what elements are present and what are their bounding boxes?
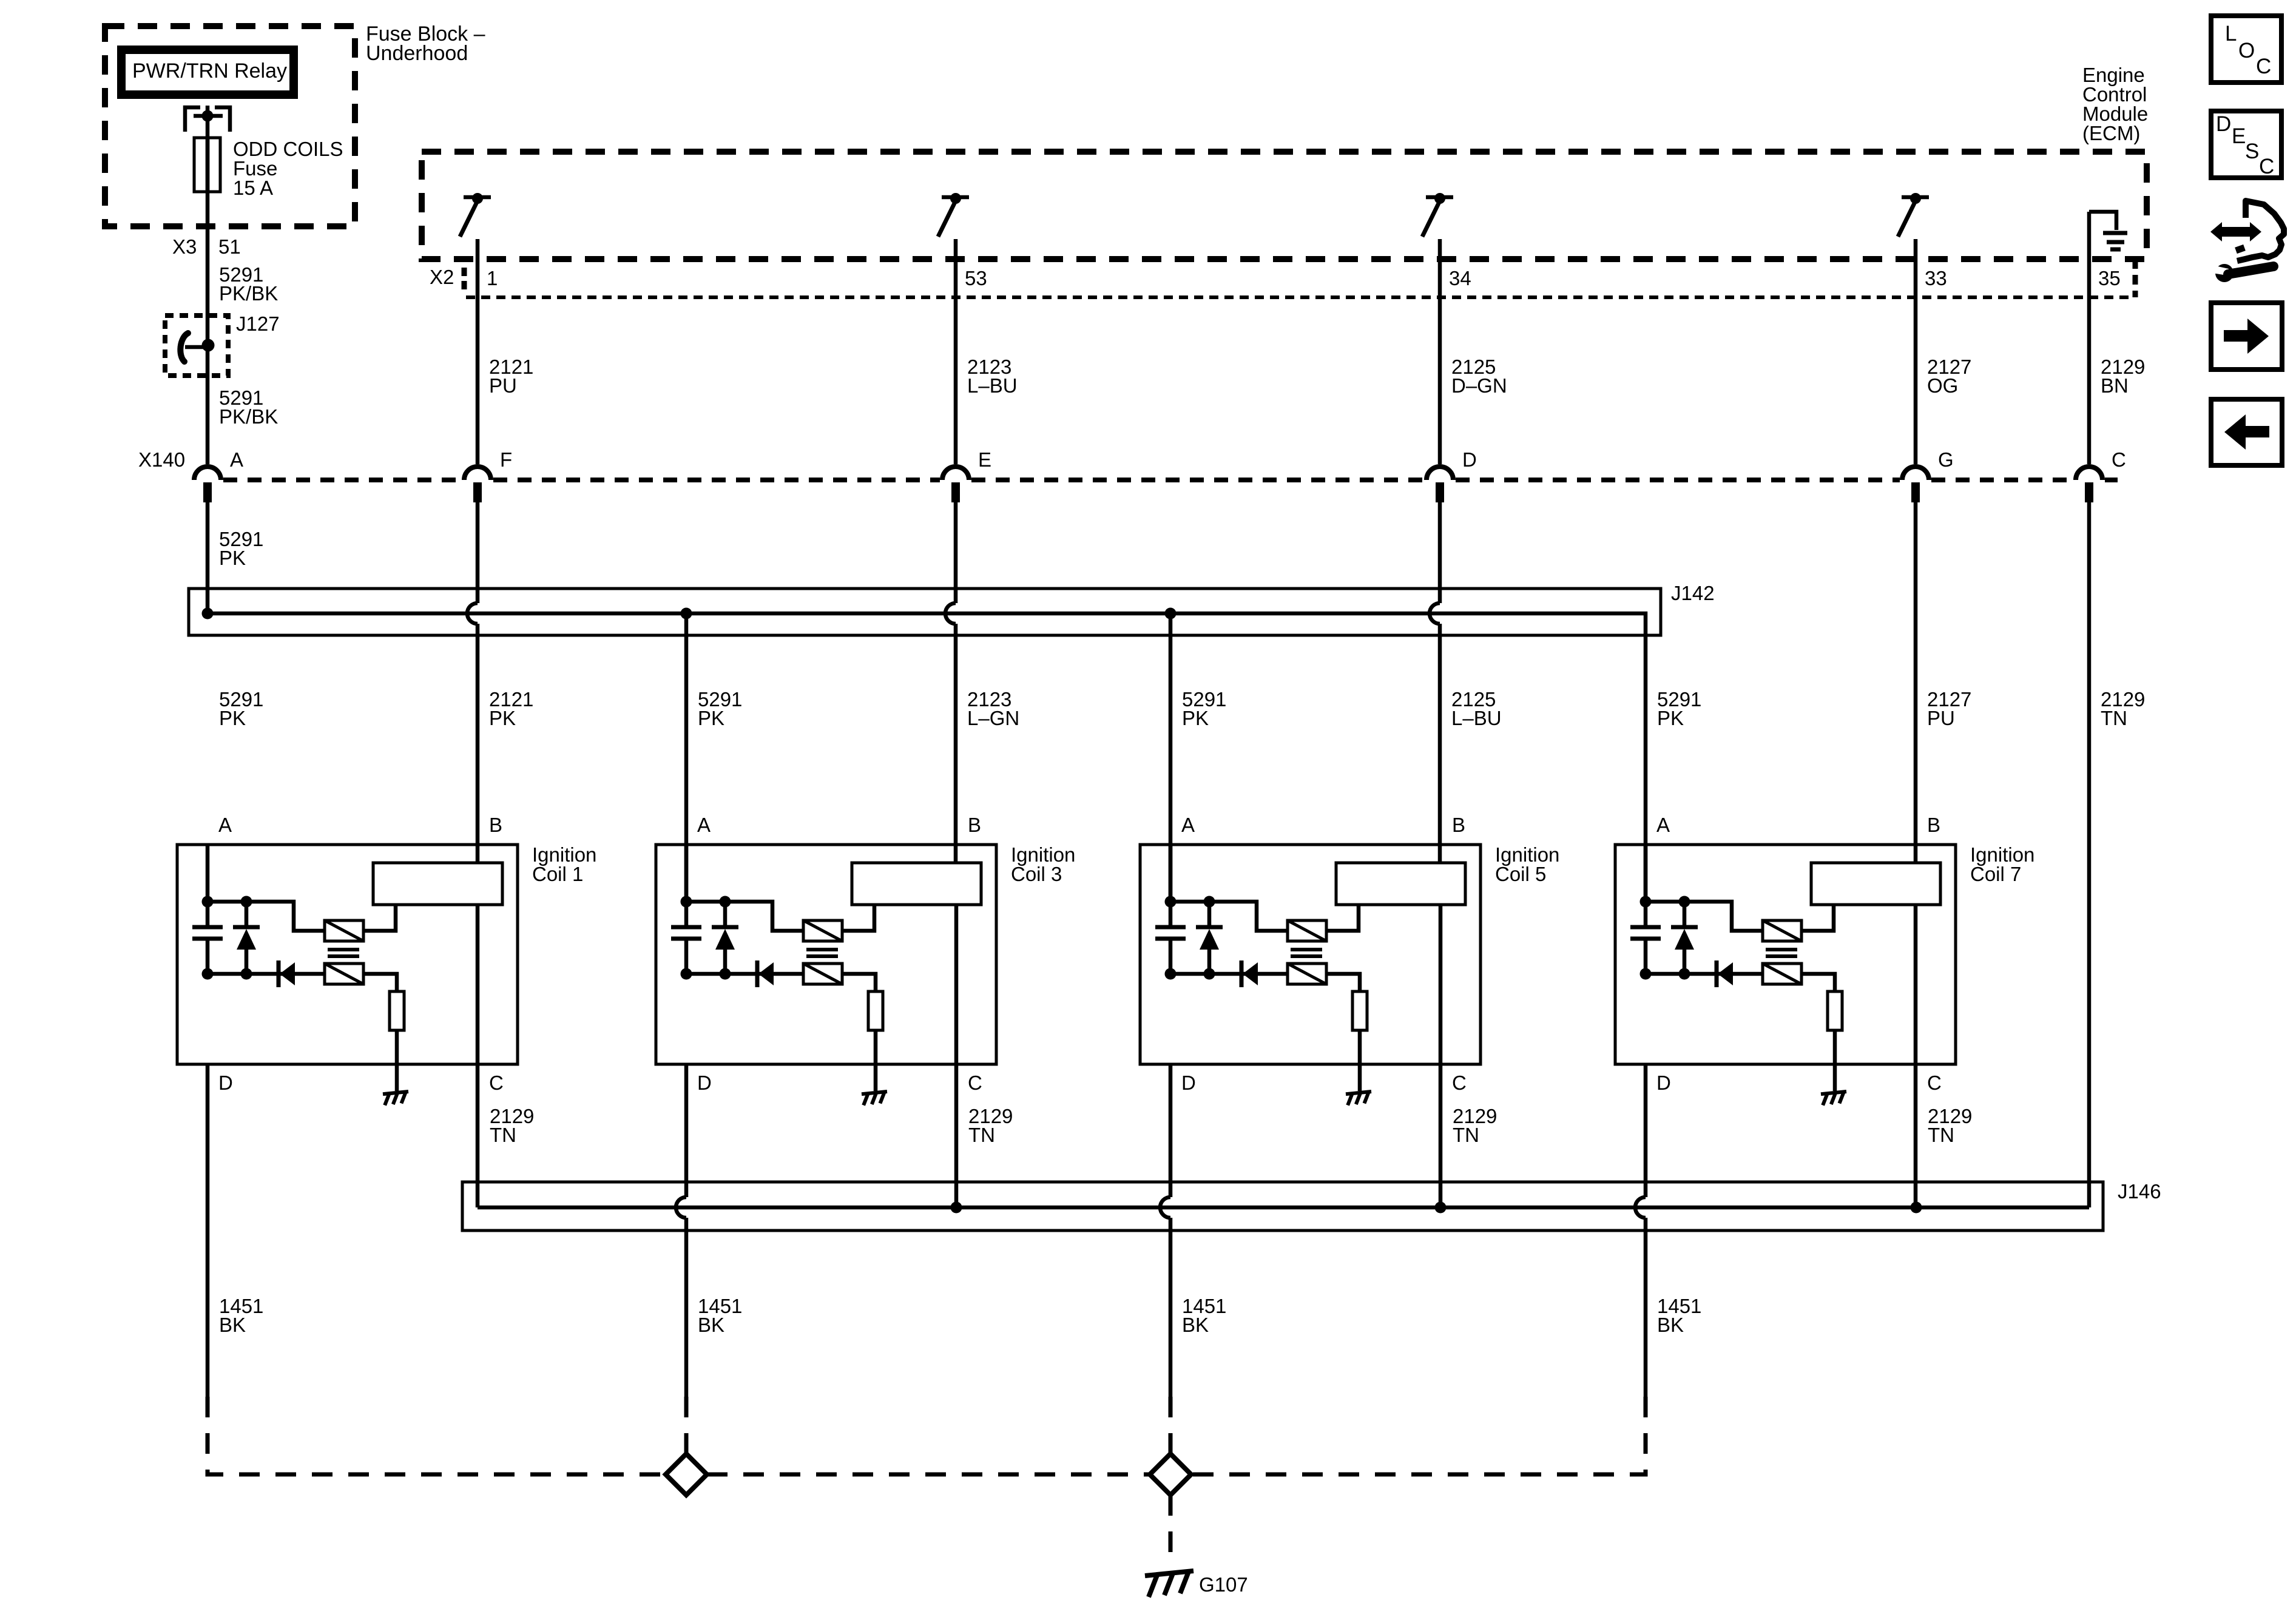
svg-text:PK/BK: PK/BK: [219, 405, 278, 428]
driver block lower coil 1: [325, 964, 363, 984]
driver block coupling bars coil 1: [328, 950, 359, 956]
icon DESC box: [2211, 111, 2281, 178]
svg-text:X140: X140: [138, 448, 185, 471]
connector X140 pin F: [464, 467, 491, 502]
ECM driver switch, output pin 53: [938, 193, 969, 237]
svg-text:D: D: [2216, 112, 2231, 136]
svg-text:PU: PU: [1927, 707, 1955, 729]
svg-text:C: C: [1452, 1072, 1467, 1094]
coil 5 internal wiring: [1170, 902, 1288, 974]
capacitor coil 5: [1155, 927, 1186, 939]
svg-text:J146: J146: [2118, 1180, 2161, 1203]
ECM dashed box: [422, 152, 2147, 259]
label wire 5291 PK/BK (lower): [219, 387, 278, 428]
label wire 5291 PK/BK (upper): [219, 263, 278, 305]
svg-text:15 A: 15 A: [233, 177, 273, 199]
label wire 2127 OG: [1927, 356, 1971, 397]
node J142 tap coil 3: [681, 608, 692, 619]
svg-text:PWR/TRN Relay: PWR/TRN Relay: [132, 59, 287, 83]
dashed wire 1451 BK coil3 to splice diamond: [684, 1397, 689, 1454]
node J146 coil7 C: [1911, 1202, 1922, 1214]
splice bus J142 outline: [189, 589, 1661, 635]
node J142 tap coil 5: [1165, 608, 1177, 619]
wire 1451 BK crossing J146 with hop at x=1929: [1160, 1064, 1170, 1397]
ignition coil 7 box: [1615, 845, 1956, 1064]
connector X3 pin 51 labels: [172, 235, 241, 258]
svg-text:L–GN: L–GN: [967, 707, 1019, 729]
svg-text:B: B: [1452, 814, 1465, 836]
svg-text:D: D: [697, 1072, 712, 1094]
svg-text:34: 34: [1449, 267, 1471, 289]
wire 2129 TN coil 7 C pin: [1914, 905, 1918, 1207]
svg-text:A: A: [1656, 814, 1670, 836]
label wire 2129 BN: [2101, 356, 2145, 397]
fuse block underhood dashed box: [105, 26, 355, 226]
svg-text:PU: PU: [489, 374, 517, 397]
label wire 1451 BK: [1182, 1295, 1226, 1336]
ground (coil 7 case): [1821, 1092, 1846, 1106]
zener diode coil 1: [233, 927, 260, 950]
node coil 1 internal dots: [202, 896, 252, 980]
diode coil 3: [757, 960, 774, 987]
wire upper driver to transformer coil 5: [1326, 905, 1359, 931]
svg-text:D–GN: D–GN: [1451, 374, 1507, 397]
ground (coil 1 case): [383, 1092, 408, 1106]
label Fuse Block - Underhood: [366, 22, 485, 65]
driver block coupling bars coil 3: [806, 950, 838, 956]
svg-text:S: S: [2245, 140, 2259, 163]
svg-text:L: L: [2225, 22, 2237, 46]
transformer (coil winding) coil 7: [1811, 863, 1940, 905]
svg-text:BK: BK: [1182, 1314, 1209, 1336]
svg-text:Coil 5: Coil 5: [1495, 863, 1546, 885]
coil 1 A-wire internal: [206, 845, 210, 902]
wire 1451 BK crossing J146 with hop at x=1131: [676, 1064, 686, 1397]
ECM connector dotted line: [466, 295, 2133, 299]
connector X140 pin E: [942, 467, 969, 502]
wire upper driver to transformer coil 1: [363, 905, 396, 931]
svg-text:51: 51: [218, 235, 241, 258]
label wire 5291 PK: [219, 528, 263, 569]
svg-text:E: E: [978, 448, 991, 471]
svg-text:Coil 1: Coil 1: [532, 863, 583, 885]
label wire 2125 D–GN: [1451, 356, 1507, 397]
capacitor coil 1: [192, 927, 223, 939]
wire lower driver to resistor coil 7: [1801, 974, 1835, 991]
label wire 5291 PK: [698, 688, 742, 729]
driver block coupling bars coil 7: [1766, 950, 1797, 956]
label wire 2129 TN coil 3: [968, 1105, 1013, 1146]
svg-text:C: C: [2112, 448, 2126, 471]
svg-text:PK: PK: [698, 707, 724, 729]
svg-text:B: B: [1927, 814, 1940, 836]
wire 2129 BN from ECM pin 35 to X140-C: [2087, 212, 2092, 464]
label wire 2129 TN coil 5: [1453, 1105, 1497, 1146]
svg-text:TN: TN: [1928, 1124, 1954, 1146]
zener diode coil 3: [712, 927, 738, 950]
wire lower driver to resistor coil 5: [1326, 974, 1360, 991]
svg-text:G: G: [1938, 448, 1954, 471]
svg-text:L–BU: L–BU: [1451, 707, 1502, 729]
coil 5 A-wire internal: [1169, 845, 1173, 902]
label wire 2129 TN: [2101, 688, 2145, 729]
coil 1 internal wiring: [208, 902, 325, 974]
label wire 5291 PK: [1657, 688, 1701, 729]
svg-text:53: 53: [965, 267, 987, 289]
svg-text:Coil 3: Coil 3: [1011, 863, 1062, 885]
wire upper driver to transformer coil 3: [842, 905, 874, 931]
svg-text:A: A: [697, 814, 711, 836]
svg-text:J142: J142: [1671, 582, 1715, 604]
svg-text:1: 1: [487, 267, 498, 289]
driver block upper coil 7: [1763, 920, 1801, 941]
driver block coupling bars coil 5: [1291, 950, 1322, 956]
label wire 5291 PK: [1182, 688, 1226, 729]
svg-text:35: 35: [2098, 267, 2121, 289]
zener diode coil 5: [1196, 927, 1223, 950]
label wire 2123 L–BU: [967, 356, 1018, 397]
label wire 1451 BK: [698, 1295, 742, 1336]
svg-text:33: 33: [1925, 267, 1947, 289]
wire 1451 BK coil 1 down: [206, 1064, 210, 1397]
connector X2 tick marks: [462, 268, 467, 291]
ignition coil 5 box: [1140, 845, 1481, 1064]
svg-text:PK: PK: [1657, 707, 1684, 729]
resistor coil 3: [868, 991, 883, 1030]
label ODD COILS Fuse 15 A: [233, 138, 343, 199]
ECM driver switch, output pin 33: [1898, 193, 1929, 237]
svg-text:PK: PK: [219, 547, 246, 569]
capacitor coil 7: [1630, 927, 1661, 939]
label Ignition Coil 7: [1970, 843, 2034, 885]
svg-text:A: A: [218, 814, 232, 836]
svg-text:BK: BK: [698, 1314, 724, 1336]
label wire 2127 PU: [1927, 688, 1971, 729]
svg-text:PK: PK: [1182, 707, 1209, 729]
wire lower driver to resistor coil 3: [842, 974, 876, 991]
resistor coil 7: [1828, 991, 1842, 1030]
node coil 7 internal dots: [1640, 896, 1690, 980]
svg-text:O: O: [2238, 39, 2255, 62]
splice J127: [165, 316, 228, 376]
node J142 at A wire: [202, 608, 214, 619]
resistor coil 1: [390, 991, 404, 1030]
svg-text:TN: TN: [968, 1124, 995, 1146]
transformer (coil winding) coil 3: [852, 863, 981, 905]
svg-text:J127: J127: [236, 312, 280, 335]
svg-text:BK: BK: [1657, 1314, 1684, 1336]
ground (coil 5 case): [1346, 1092, 1371, 1106]
node: relay output junction: [202, 110, 214, 122]
svg-text:B: B: [489, 814, 502, 836]
wire resistor to case ground coil 3: [874, 1030, 878, 1091]
driver block upper coil 1: [325, 920, 363, 941]
coil 3 A-wire internal: [684, 845, 689, 902]
dashed wire 1451 BK coil7 to ground bus: [1191, 1397, 1646, 1474]
connector X140 pin G: [1902, 467, 1929, 502]
label Ignition Coil 5: [1495, 843, 1559, 885]
resistor coil 5: [1352, 991, 1367, 1030]
dashed wire to ground G107: [1169, 1495, 1173, 1568]
driver block lower coil 3: [803, 964, 842, 984]
splice bus J146 inner wire: [478, 1206, 2089, 1210]
node J146 coil5 C: [1435, 1202, 1447, 1214]
svg-text:BK: BK: [219, 1314, 246, 1336]
wire 2123 L–BU from ECM to X140: [954, 239, 958, 464]
svg-text:A: A: [230, 448, 243, 471]
wire 2123 crossing J142 with hop: [945, 502, 956, 863]
wire lower driver to resistor coil 1: [363, 974, 397, 991]
coil 3 internal wiring: [686, 902, 803, 974]
ground (coil 3 case): [862, 1092, 887, 1106]
label wire 1451 BK: [1657, 1295, 1701, 1336]
label wire 5291 PK: [219, 688, 263, 729]
wire 5291 PK from X140-A to splice bus J142: [206, 502, 210, 613]
svg-text:TN: TN: [2101, 707, 2127, 729]
svg-text:PK: PK: [489, 707, 516, 729]
driver block upper coil 3: [803, 920, 842, 941]
icon forward arrow box: [2211, 303, 2282, 370]
svg-text:OG: OG: [1927, 374, 1958, 397]
diode coil 1: [279, 960, 295, 987]
svg-text:X2: X2: [430, 266, 454, 288]
label wire 2129 TN coil 1: [490, 1105, 534, 1146]
node coil 3 internal dots: [681, 896, 731, 980]
splice diamond (coil3 branch): [666, 1454, 707, 1495]
ECM driver switch, output pin 34: [1422, 193, 1453, 237]
svg-text:D: D: [1181, 1072, 1196, 1094]
svg-text:E: E: [2232, 124, 2246, 148]
coil 7 internal wiring: [1646, 902, 1763, 974]
driver block lower coil 7: [1763, 964, 1801, 984]
wire 2127 OG from ECM to X140: [1914, 239, 1918, 464]
label wire 2121 PU: [489, 356, 533, 397]
svg-text:D: D: [1656, 1072, 1671, 1094]
connector X140 dotted harness line: [223, 478, 2118, 482]
icon back arrow box: [2211, 399, 2282, 465]
label wire 2123 L–GN: [967, 688, 1019, 729]
wire resistor to case ground coil 1: [395, 1030, 399, 1091]
svg-text:(ECM): (ECM): [2082, 122, 2140, 144]
wire 2129 TN coil 1 C pin: [476, 905, 480, 1207]
svg-text:TN: TN: [1453, 1124, 1479, 1146]
svg-text:C: C: [968, 1072, 982, 1094]
coil 7 A-wire internal: [1644, 845, 1648, 902]
icon LOC box: [2211, 16, 2281, 83]
label wire 1451 BK: [219, 1295, 263, 1336]
wire resistor to case ground coil 7: [1833, 1030, 1837, 1091]
svg-text:D: D: [218, 1072, 233, 1094]
ECM pin numbers 1 53 34 33 35: [487, 267, 2121, 289]
label Ignition Coil 1: [532, 843, 596, 885]
diode coil 5: [1241, 960, 1258, 987]
svg-text:A: A: [1181, 814, 1195, 836]
svg-text:G107: G107: [1199, 1573, 1248, 1596]
svg-text:C: C: [1927, 1072, 1942, 1094]
dashed wire 1451 BK coil5 to splice diamond: [1169, 1397, 1173, 1454]
label wire 2125 L–BU: [1451, 688, 1502, 729]
label wire 2129 TN coil 7: [1928, 1105, 1972, 1146]
connector X140 pin A: [194, 467, 221, 502]
relay contact bracket: [185, 106, 230, 132]
wire 2121 crossing J142 with hop: [467, 502, 478, 863]
wire 2129 TN coil 5 C pin: [1439, 905, 1443, 1207]
wire 1451 BK crossing J146 with hop at x=2712: [1635, 1064, 1646, 1397]
wire 5291 PK/BK from relay through fuse to splice J127: [206, 116, 210, 345]
diode coil 7: [1717, 960, 1733, 987]
label Engine Control Module (ECM): [2082, 64, 2148, 144]
wire 5291 PK/BK from J127 to X140-A: [206, 345, 210, 464]
relay K1 PWR/TRN Relay: [121, 50, 294, 95]
svg-text:BN: BN: [2101, 374, 2129, 397]
connector X140 pin C: [2076, 467, 2102, 502]
wire resistor to case ground coil 5: [1358, 1030, 1362, 1091]
label wire 2121 PK: [489, 688, 533, 729]
driver block lower coil 5: [1288, 964, 1326, 984]
wire 2121 PU from ECM to X140: [476, 239, 480, 464]
splice bus J142 inner wire: [208, 613, 1646, 902]
wire 2129 TN from X140-C down to splice bus J146: [2087, 502, 2092, 1207]
svg-text:B: B: [968, 814, 981, 836]
svg-text:F: F: [500, 448, 512, 471]
svg-text:C: C: [2259, 155, 2274, 178]
svg-text:Underhood: Underhood: [366, 42, 468, 65]
ignition coil 1 box: [177, 845, 518, 1064]
icon wrench/diagnostic: [2210, 201, 2284, 282]
dashed ground harness line: [707, 1473, 1150, 1477]
fuse F ODD COILS 15 A: [194, 138, 220, 192]
ECM driver switch, output pin 1: [460, 193, 491, 237]
svg-text:PK/BK: PK/BK: [219, 282, 278, 305]
svg-text:D: D: [1462, 448, 1477, 471]
connector X140 pin D: [1427, 467, 1453, 502]
svg-text:TN: TN: [490, 1124, 516, 1146]
ECM internal ground at pin 35: [2089, 212, 2127, 249]
svg-text:C: C: [489, 1072, 504, 1094]
svg-text:PK: PK: [219, 707, 246, 729]
wire 2125 crossing J142 with hop: [1430, 502, 1440, 863]
svg-text:X3: X3: [172, 235, 197, 258]
wire upper driver to transformer coil 7: [1801, 905, 1834, 931]
ECM right edge step (pin 35 pocket): [2133, 259, 2138, 297]
node coil 5 internal dots: [1165, 896, 1215, 980]
splice bus J146 outline: [462, 1182, 2103, 1230]
ignition coil 3 box: [656, 845, 996, 1064]
wire 2129 TN coil 3 C pin: [954, 905, 959, 1207]
node J146 coil3 C: [951, 1202, 962, 1214]
splice diamond (coil5 branch to G107): [1150, 1454, 1191, 1495]
driver block upper coil 5: [1288, 920, 1326, 941]
transformer (coil winding) coil 1: [373, 863, 502, 905]
wire 2125 D–GN from ECM to X140: [1438, 239, 1442, 464]
ground G107: [1145, 1571, 1194, 1597]
svg-text:L–BU: L–BU: [967, 374, 1018, 397]
svg-text:C: C: [2256, 55, 2271, 78]
label Ignition Coil 3: [1011, 843, 1075, 885]
zener diode coil 7: [1671, 927, 1698, 950]
transformer (coil winding) coil 5: [1336, 863, 1465, 905]
wires 5291 PK taps from J142 to coils 3 and 5: [684, 613, 689, 902]
svg-text:Coil 7: Coil 7: [1970, 863, 2021, 885]
wire 2127 PU from X140-G to coil 7 pin B: [1914, 502, 1918, 863]
capacitor coil 3: [671, 927, 701, 939]
dashed wire 1451 BK coil1 to ground bus: [208, 1397, 666, 1474]
